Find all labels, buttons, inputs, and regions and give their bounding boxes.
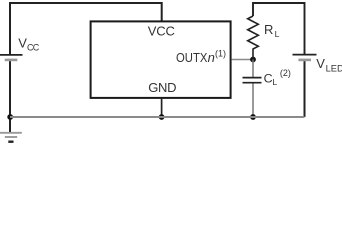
svg-text:L: L <box>275 29 280 39</box>
node junction bottom-left <box>7 114 13 120</box>
node junction capacitor on bottom rail <box>250 114 256 120</box>
ground bar 2 <box>5 136 17 138</box>
svg-text:V: V <box>316 56 325 71</box>
wire GND pin to bottom rail <box>161 98 163 117</box>
capacitor C_L top plate <box>243 77 262 79</box>
svg-text:CC: CC <box>27 43 40 53</box>
battery V_LED short plate <box>298 59 311 62</box>
node junction OUTX load <box>250 57 256 63</box>
ground bar 1 <box>0 132 22 134</box>
svg-text:LED: LED <box>326 63 342 73</box>
svg-text:(1): (1) <box>215 49 226 59</box>
node junction GND on bottom rail <box>159 114 165 120</box>
capacitor C_L bottom plate <box>243 82 262 84</box>
wire bottom ground rail <box>10 116 305 118</box>
svg-text:R: R <box>264 22 273 37</box>
wire OUTX pin to load node <box>232 59 253 61</box>
wire left vertical battery to ground <box>9 61 11 132</box>
wire right vertical battery to bottom rail <box>304 61 306 117</box>
svg-text:OUTX: OUTX <box>176 50 208 65</box>
battery V_LED long plate <box>293 54 317 56</box>
svg-text:GND: GND <box>148 80 176 95</box>
wire capacitor bottom to bottom rail <box>252 84 254 118</box>
svg-text:V: V <box>18 36 27 51</box>
svg-text:C: C <box>264 71 273 85</box>
wire top-left from VCC supply to box VCC pin <box>10 3 162 54</box>
ground bar 3 <box>8 140 13 142</box>
wire top-right from resistor top to V_LED supply <box>253 3 305 54</box>
svg-text:L: L <box>272 77 277 87</box>
wire node to capacitor top <box>252 60 254 78</box>
svg-text:(2): (2) <box>280 68 291 78</box>
svg-text:n: n <box>208 50 215 65</box>
battery V_CC short plate <box>5 59 18 62</box>
svg-text:VCC: VCC <box>148 23 175 38</box>
resistor R_L <box>248 16 259 59</box>
battery V_CC long plate <box>0 54 23 56</box>
device box U1 <box>91 21 231 98</box>
